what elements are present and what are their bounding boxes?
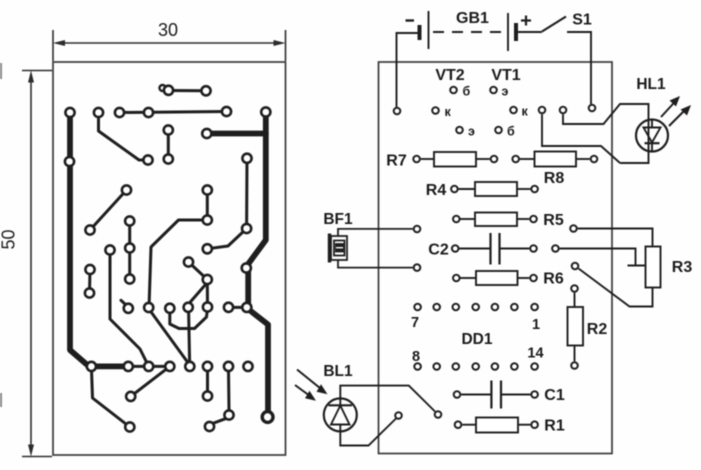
svg-text:R2: R2 bbox=[587, 321, 608, 338]
svg-text:BF1: BF1 bbox=[323, 211, 353, 228]
svg-text:э: э bbox=[502, 85, 509, 99]
svg-text:BL1: BL1 bbox=[323, 363, 353, 380]
svg-text:30: 30 bbox=[158, 20, 178, 40]
svg-text:R4: R4 bbox=[426, 182, 447, 199]
svg-text:к: к bbox=[445, 105, 452, 119]
svg-text:R8: R8 bbox=[544, 170, 565, 187]
svg-text:7: 7 bbox=[411, 315, 419, 331]
svg-text:б: б bbox=[507, 125, 515, 139]
svg-text:R6: R6 bbox=[543, 271, 564, 288]
svg-text:HL1: HL1 bbox=[636, 76, 666, 93]
svg-text:DD1: DD1 bbox=[461, 331, 492, 348]
svg-text:R3: R3 bbox=[672, 259, 693, 276]
svg-text:C2: C2 bbox=[428, 242, 449, 259]
svg-text:VT1: VT1 bbox=[491, 67, 520, 84]
svg-text:R7: R7 bbox=[386, 153, 407, 170]
svg-text:1: 1 bbox=[532, 317, 540, 333]
svg-text:C1: C1 bbox=[544, 387, 565, 404]
svg-text:VT2: VT2 bbox=[435, 67, 464, 84]
svg-text:к: к bbox=[522, 105, 529, 119]
svg-text:14: 14 bbox=[527, 346, 543, 362]
svg-text:R5: R5 bbox=[543, 212, 564, 229]
svg-text:GB1: GB1 bbox=[456, 10, 489, 27]
svg-text:б: б bbox=[463, 85, 471, 99]
svg-text:S1: S1 bbox=[572, 12, 592, 29]
svg-text:R1: R1 bbox=[544, 418, 565, 435]
svg-text:э: э bbox=[468, 125, 475, 139]
svg-text:50: 50 bbox=[0, 229, 19, 249]
